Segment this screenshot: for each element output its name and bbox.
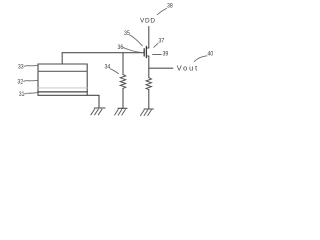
wire bottom electrode lead to ground	[87, 95, 99, 108]
leader for label 34	[110, 69, 118, 74]
svg-text:37: 37	[159, 38, 165, 45]
svg-text:40: 40	[208, 50, 214, 57]
leader for label 33	[25, 65, 38, 66]
leader for label 37	[154, 43, 158, 47]
transistor 35 source stub	[146, 55, 148, 57]
resistor 34 top wire	[122, 53, 124, 75]
leader for label 31	[25, 92, 38, 94]
piezoelectric element 30 outline	[38, 64, 87, 95]
layer 33 divider (upper electrode bottom)	[38, 70, 87, 72]
leader for label 35	[130, 35, 143, 46]
leader for label 36	[123, 48, 140, 53]
ground right bar	[144, 108, 153, 110]
svg-text:Vout: Vout	[177, 64, 197, 73]
svg-text:31: 31	[19, 91, 25, 98]
svg-text:32: 32	[17, 79, 23, 86]
svg-text:38: 38	[167, 2, 173, 9]
leader for label 38	[157, 8, 166, 14]
electrode 31 dark line	[38, 91, 87, 93]
resistor 39 zigzag (source load)	[146, 78, 151, 90]
svg-text:33: 33	[18, 64, 24, 71]
ground piezo hatches	[91, 109, 102, 115]
leader for label 40	[194, 56, 207, 62]
svg-text:36: 36	[118, 44, 124, 51]
wire Vout horizontal	[149, 67, 173, 69]
ground right hatches	[141, 110, 152, 116]
wire gate horizontal from element top to transistor gate	[62, 52, 144, 54]
resistor 34 zigzag	[120, 75, 125, 89]
leader for label 32	[24, 80, 38, 81]
ground piezo bar	[94, 107, 105, 109]
wire VDD vertical to drain	[148, 27, 150, 49]
transistor 35 drain stub	[146, 47, 148, 49]
svg-text:34: 34	[105, 64, 111, 71]
wire source down to resistor	[148, 56, 150, 78]
transistor 35 gate bar	[143, 49, 145, 56]
svg-text:35: 35	[124, 30, 130, 37]
leader for label 39	[153, 54, 162, 56]
transistor 35 channel bar	[145, 46, 147, 57]
svg-text:39: 39	[163, 51, 169, 58]
faint inner divider of layer 31	[38, 87, 87, 89]
ground left bar	[118, 107, 127, 109]
wire corner vertical down to element top edge	[61, 53, 63, 64]
svg-text:VDD: VDD	[140, 17, 155, 24]
resistor 34 bottom wire	[122, 88, 124, 108]
ground left hatches	[115, 110, 126, 116]
resistor 39 bottom wire	[148, 90, 150, 109]
